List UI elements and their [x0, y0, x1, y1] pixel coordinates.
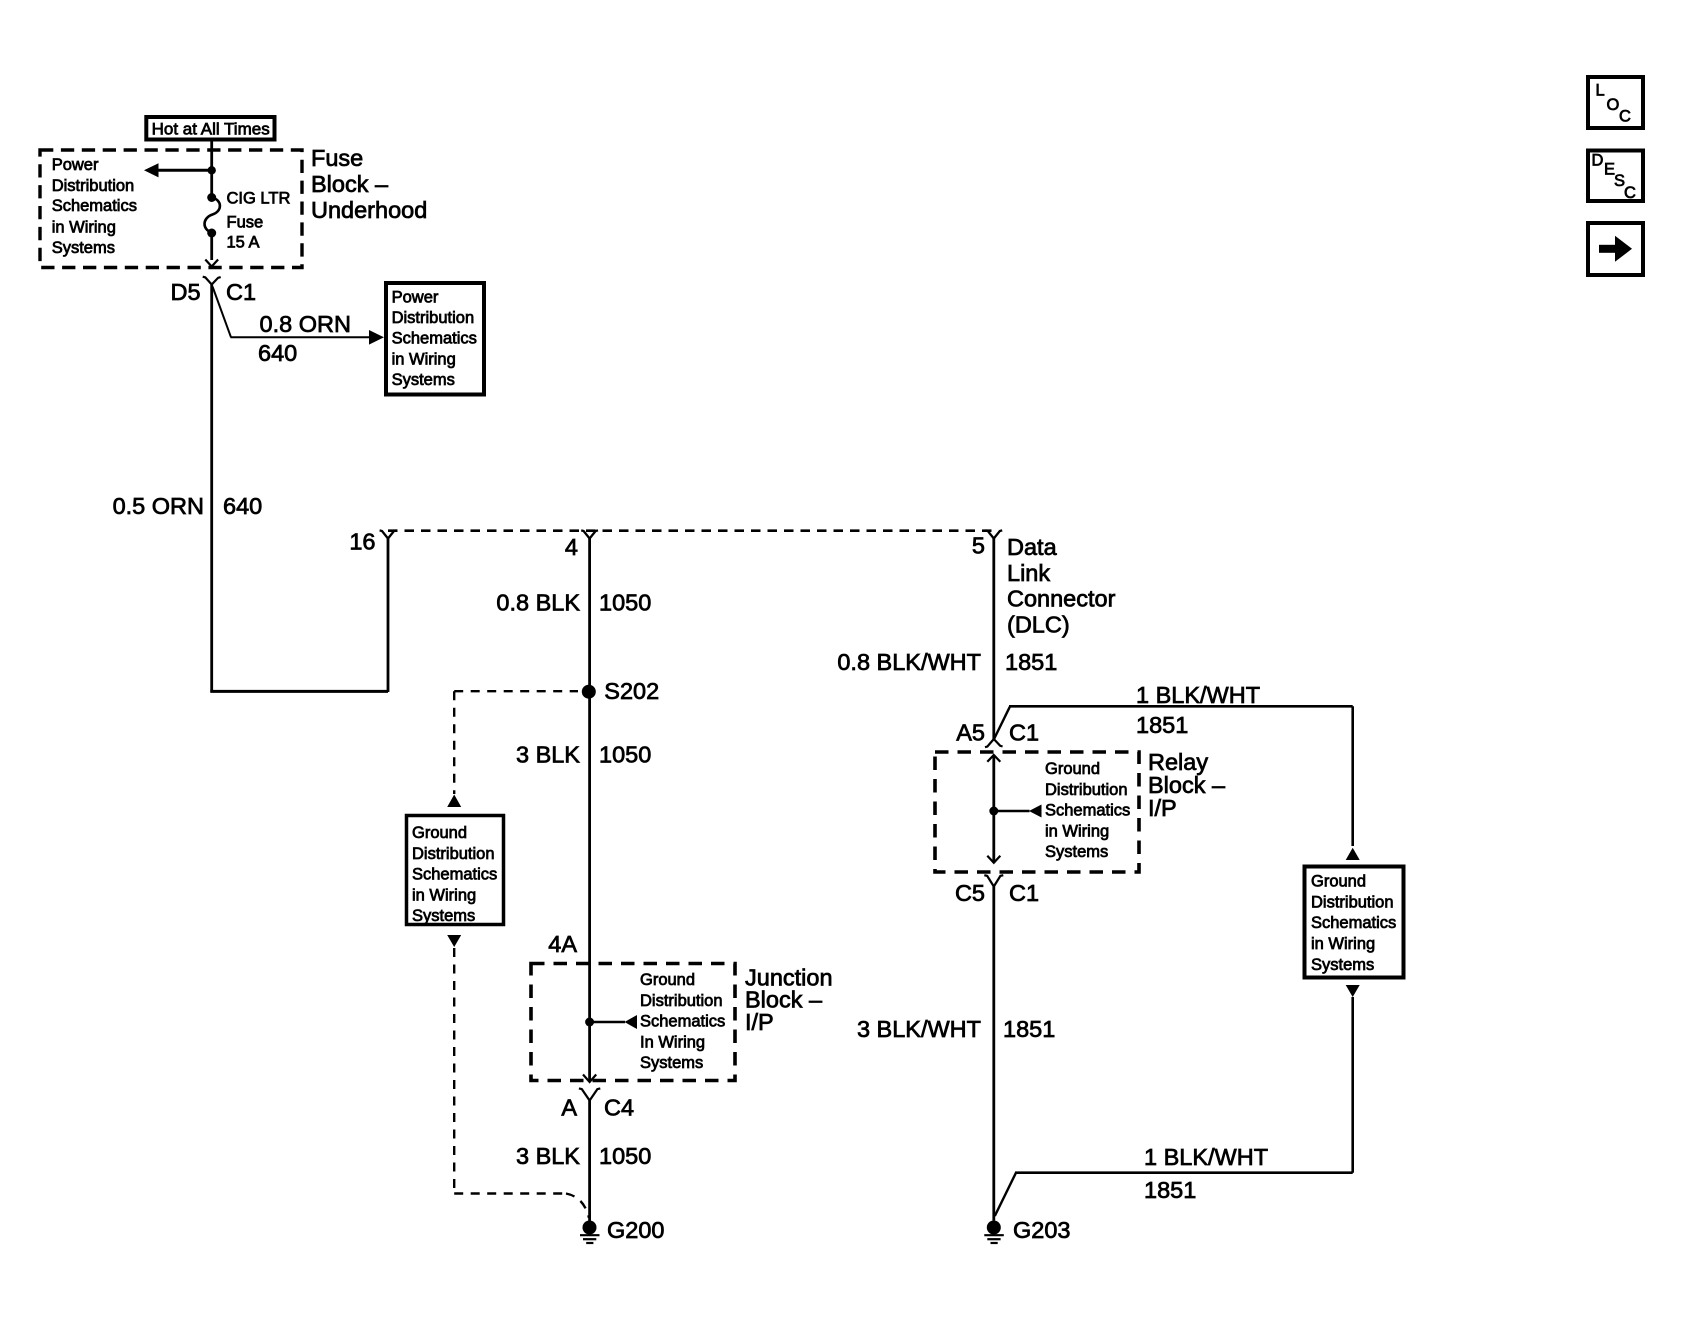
svg-text:C4: C4 — [604, 1095, 634, 1121]
svg-text:Schematics: Schematics — [640, 1013, 725, 1031]
svg-text:3 BLK: 3 BLK — [516, 1143, 580, 1169]
svg-text:C: C — [1624, 184, 1636, 202]
arrow up triangle — [447, 795, 461, 808]
svg-text:Schematics: Schematics — [412, 866, 497, 884]
wire inside relay block — [992, 755, 995, 863]
svg-text:3 BLK/WHT: 3 BLK/WHT — [857, 1016, 981, 1042]
svg-text:640: 640 — [223, 493, 262, 519]
svg-text:1851: 1851 — [1003, 1016, 1055, 1042]
svg-text:Power: Power — [392, 288, 439, 306]
node S202 — [582, 685, 596, 699]
wire bottom horizontal to pin 16 — [210, 690, 388, 693]
arrow left triangle — [1029, 805, 1042, 818]
wire C5 down to ground — [992, 887, 995, 1221]
svg-text:Schematics: Schematics — [1311, 914, 1396, 932]
wire pin5 down (main right vertical) — [992, 539, 995, 740]
relay block dashed box — [935, 752, 1139, 872]
svg-text:in Wiring: in Wiring — [52, 218, 116, 236]
svg-text:1851: 1851 — [1005, 649, 1057, 675]
dashed wire from S202 to ground distribution box — [454, 691, 578, 794]
connector A5 C1 — [985, 739, 1003, 747]
svg-text:Systems: Systems — [1311, 956, 1374, 974]
svg-text:0.5 ORN: 0.5 ORN — [113, 493, 204, 519]
wire tee inside junction block — [590, 1021, 625, 1023]
wire tee inside relay block — [994, 810, 1030, 812]
svg-text:Link: Link — [1007, 560, 1050, 586]
svg-text:Distribution: Distribution — [412, 845, 495, 863]
svg-text:Ground: Ground — [1045, 760, 1100, 778]
svg-text:Systems: Systems — [1045, 843, 1108, 861]
svg-text:0.8 ORN: 0.8 ORN — [260, 311, 351, 337]
wire vertical up to pin 16 — [387, 539, 390, 693]
svg-text:1 BLK/WHT: 1 BLK/WHT — [1136, 682, 1260, 708]
svg-text:In Wiring: In Wiring — [640, 1033, 705, 1051]
svg-text:Systems: Systems — [640, 1054, 703, 1072]
svg-text:(DLC): (DLC) — [1007, 612, 1070, 638]
ground G203 — [984, 1221, 1004, 1244]
svg-text:D: D — [1592, 152, 1604, 170]
svg-text:Hot at All Times: Hot at All Times — [152, 119, 270, 138]
svg-text:1050: 1050 — [599, 742, 651, 768]
svg-text:Distribution: Distribution — [1045, 781, 1128, 799]
label Fuse Block - Underhood — [311, 145, 427, 223]
wire from Hot box to fuse — [210, 141, 213, 197]
svg-text:Distribution: Distribution — [1311, 893, 1394, 911]
svg-text:Ground: Ground — [1311, 873, 1366, 891]
ground G200 — [580, 1221, 600, 1244]
svg-text:G203: G203 — [1013, 1217, 1071, 1243]
arrow left triangle — [625, 1015, 638, 1029]
svg-text:A: A — [561, 1095, 577, 1121]
svg-text:Ground: Ground — [412, 824, 467, 842]
svg-text:Block –: Block – — [311, 171, 389, 197]
Hot at All Times box — [146, 117, 274, 140]
svg-text:C: C — [1619, 108, 1631, 126]
svg-text:C1: C1 — [226, 279, 256, 305]
svg-text:Data: Data — [1007, 534, 1058, 560]
box text Ground Distribution Schematics (relay block) — [1045, 760, 1130, 861]
svg-text:0.8 BLK: 0.8 BLK — [496, 590, 580, 616]
svg-text:Systems: Systems — [52, 239, 115, 257]
svg-text:in Wiring: in Wiring — [1311, 935, 1375, 953]
fuse block dashed box (Fuse Block - Underhood) — [40, 150, 302, 268]
wire branch diagonal from A5 to 1 BLK/WHT — [994, 707, 1010, 740]
branch diagonal to 0.8 ORN — [213, 287, 232, 338]
svg-text:C1: C1 — [1009, 720, 1039, 746]
svg-text:3 BLK: 3 BLK — [516, 742, 580, 768]
svg-text:4A: 4A — [548, 931, 577, 957]
svg-text:Fuse: Fuse — [227, 214, 264, 232]
label Data Link Connector (DLC) — [1007, 534, 1116, 638]
svg-text:Power: Power — [52, 156, 99, 174]
svg-text:15 A: 15 A — [227, 233, 260, 251]
wire 0.8 ORN horizontal with arrow — [231, 330, 385, 345]
svg-text:C5: C5 — [955, 880, 985, 906]
svg-text:1050: 1050 — [599, 1143, 651, 1169]
svg-text:I/P: I/P — [745, 1009, 774, 1035]
svg-text:Underhood: Underhood — [311, 197, 427, 223]
wire left arrow branch — [144, 163, 216, 177]
svg-text:5: 5 — [972, 533, 985, 559]
arrow down triangle — [447, 935, 461, 947]
label Relay Block - I/P — [1148, 749, 1226, 821]
connector pin 5 — [985, 530, 1002, 538]
arrow down chevron inside relay block — [987, 856, 1000, 863]
svg-text:Schematics: Schematics — [1045, 802, 1130, 820]
wire pin 4 down — [588, 539, 591, 1083]
arrow down chevron at fuse block exit — [205, 260, 218, 267]
connector pin 16 — [380, 530, 397, 538]
dashed wire bottom horizontal — [454, 1192, 566, 1194]
svg-text:G200: G200 — [607, 1217, 665, 1243]
connector A C4 — [579, 1088, 600, 1100]
arrow down triangle below right box — [1346, 985, 1360, 997]
svg-text:D5: D5 — [171, 279, 201, 305]
arrow down chevron at junction block exit — [583, 1075, 596, 1083]
box Power Distribution Schematics (right of 0.8 ORN) — [386, 283, 484, 395]
label Junction Block - I/P — [745, 965, 833, 1035]
arrow up triangle above right box — [1346, 848, 1360, 860]
svg-text:in Wiring: in Wiring — [412, 886, 476, 904]
svg-text:0.8 BLK/WHT: 0.8 BLK/WHT — [837, 649, 981, 675]
box Ground Distribution Schematics (right) — [1305, 867, 1404, 978]
svg-text:Distribution: Distribution — [640, 992, 723, 1010]
wire right vertical down to box — [1351, 706, 1354, 846]
svg-text:L: L — [1596, 82, 1605, 100]
svg-text:in Wiring: in Wiring — [392, 350, 456, 368]
LOC nav box — [1588, 77, 1643, 128]
svg-text:I/P: I/P — [1148, 795, 1177, 821]
node dot inside junction block — [585, 1018, 594, 1027]
svg-text:A5: A5 — [956, 720, 985, 746]
svg-text:S202: S202 — [604, 678, 659, 704]
svg-text:1851: 1851 — [1144, 1177, 1196, 1203]
node dot inside relay block — [989, 807, 998, 816]
connector C5 C1 — [984, 875, 1003, 886]
svg-text:in Wiring: in Wiring — [1045, 822, 1109, 840]
svg-text:1851: 1851 — [1136, 712, 1188, 738]
svg-text:640: 640 — [258, 340, 297, 366]
svg-text:C1: C1 — [1009, 880, 1039, 906]
connector pin 4 — [581, 530, 598, 538]
arrow nav box — [1588, 223, 1643, 275]
svg-text:4: 4 — [565, 534, 578, 560]
svg-text:Distribution: Distribution — [52, 177, 135, 195]
svg-text:1050: 1050 — [599, 590, 651, 616]
svg-text:Connector: Connector — [1007, 586, 1116, 612]
svg-text:CIG LTR: CIG LTR — [227, 190, 291, 208]
fuse CIG LTR 15 A — [205, 193, 220, 238]
value label CIG LTR Fuse 15 A — [227, 190, 291, 252]
connector D5 C1 — [203, 277, 221, 285]
svg-text:Fuse: Fuse — [311, 145, 363, 171]
wire 1 BLK/WHT horizontal bottom — [1015, 1171, 1353, 1174]
wire diagonal to G203 — [995, 1173, 1016, 1216]
box text Ground Distribution Schematics (junction block) — [640, 971, 725, 1072]
svg-text:16: 16 — [349, 529, 375, 555]
dashed wire elbow to ground — [566, 1194, 589, 1219]
box text Power Distribution Schematics (inside fuse block) — [52, 156, 137, 257]
dashed DLC bus wire — [388, 529, 994, 532]
arrow up chevron inside relay block — [987, 755, 1000, 762]
svg-text:Schematics: Schematics — [52, 197, 137, 215]
dashed wire down — [453, 948, 455, 1194]
svg-text:Systems: Systems — [392, 371, 455, 389]
svg-text:1 BLK/WHT: 1 BLK/WHT — [1144, 1144, 1268, 1170]
svg-text:Distribution: Distribution — [392, 309, 475, 327]
wire fuse to connector — [210, 233, 213, 260]
DESC nav box — [1588, 151, 1643, 203]
box Ground Distribution Schematics (left) — [407, 816, 504, 926]
wire right vertical down — [1351, 997, 1354, 1173]
junction block dashed box — [531, 964, 735, 1081]
svg-text:Systems: Systems — [412, 907, 475, 925]
svg-text:O: O — [1607, 96, 1620, 114]
svg-text:Ground: Ground — [640, 971, 695, 989]
svg-text:Schematics: Schematics — [392, 329, 477, 347]
main wire down left — [210, 285, 213, 693]
wire 1 BLK/WHT horizontal top — [1009, 705, 1353, 708]
